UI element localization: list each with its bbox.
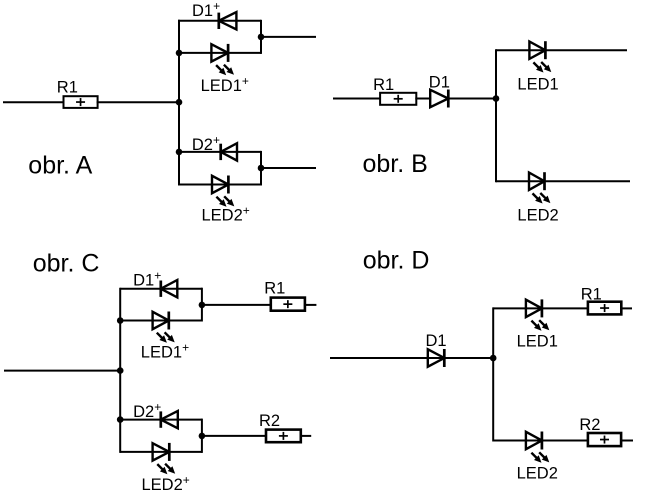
node: C main junction	[117, 367, 124, 374]
svg-text:D1: D1	[426, 332, 447, 350]
LED LED2 (obr. B)	[529, 173, 545, 190]
svg-text:obr. B: obr. B	[363, 150, 428, 178]
svg-text:LED2+: LED2+	[142, 473, 190, 494]
svg-text:obr. C: obr. C	[33, 249, 100, 277]
wire: C loop2 right side	[201, 419, 203, 453]
node: C output 2	[199, 433, 206, 440]
node: A output 2	[258, 165, 265, 172]
wire: C loop2 bottom (LED2)	[120, 451, 202, 453]
wire: B D1 to junction	[448, 98, 496, 100]
wire: A R1 to junction	[97, 101, 179, 103]
wire: C loop1 right side	[201, 288, 203, 322]
wire: B vertical	[495, 49, 497, 182]
wire: A loop2 top (D2 branch)	[179, 151, 261, 153]
wire: D R1 output	[620, 307, 632, 309]
LED LED2 (obr. D)	[526, 432, 542, 449]
wire: D top branch (LED1)	[493, 307, 589, 309]
wire: D bottom branch (LED2)	[493, 440, 589, 442]
svg-text:LED1+: LED1+	[201, 74, 249, 95]
diode D2 (obr. C)	[161, 411, 178, 428]
wire: A loop1 bottom (LED1 branch)	[179, 52, 261, 54]
node: A loop1 lower tap	[176, 50, 183, 57]
diode D1 (obr. C)	[161, 280, 178, 297]
node: D junction	[490, 355, 497, 362]
LED LED1 (obr. A)	[211, 44, 228, 61]
wire: D input	[330, 357, 493, 359]
wire: C loop2 top (D2 branch)	[120, 419, 202, 421]
wire: B R1 to D1	[415, 98, 431, 100]
wire: B input	[333, 98, 381, 100]
wire: C loop1 top (D1 branch)	[120, 288, 202, 290]
LED LED2 (obr. A)	[212, 176, 228, 193]
wire: A input	[3, 101, 65, 103]
wire: A vertical bus	[178, 20, 180, 186]
node: A main junction	[176, 99, 183, 106]
svg-text:R1: R1	[57, 79, 78, 97]
wire: C output 2 to R2	[202, 435, 267, 437]
node: A output 1	[258, 34, 265, 41]
wire: A output 1	[261, 36, 316, 38]
svg-text:R2: R2	[259, 412, 280, 430]
svg-text:R1: R1	[581, 285, 602, 303]
wire: B bottom branch (LED2)	[496, 180, 630, 182]
wire: D vertical	[492, 307, 494, 441]
diode D1 (obr. D)	[428, 349, 445, 366]
LED LED1 (obr. C)	[153, 312, 169, 329]
svg-text:LED1: LED1	[517, 332, 558, 350]
resistor R2 (obr. C)	[266, 430, 301, 443]
svg-text:R2: R2	[579, 416, 600, 434]
wire: A loop1 right side	[260, 20, 262, 54]
svg-text:R1: R1	[264, 279, 285, 297]
resistor R1 (obr. A)	[64, 96, 98, 108]
LED LED1 (obr. B)	[529, 42, 545, 59]
node: A loop2 upper tap	[176, 149, 183, 156]
svg-text:D1: D1	[429, 73, 450, 91]
node: C output 1	[199, 302, 206, 309]
LED LED1 (obr. D)	[526, 300, 542, 317]
resistor R2 (obr. D)	[588, 433, 621, 446]
wire: D R2 output	[620, 440, 633, 442]
resistor R1 (obr. B)	[380, 93, 416, 105]
wire: C R2 output	[300, 435, 311, 437]
wire: A loop2 bottom (LED2 branch)	[179, 184, 261, 186]
svg-text:obr. D: obr. D	[363, 247, 430, 275]
wire: A loop2 right side	[260, 151, 262, 186]
svg-text:LED2: LED2	[517, 207, 558, 225]
diode D1 (obr. A)	[219, 12, 237, 29]
wire: A output 2	[261, 167, 316, 169]
wire: C output 1 to R1	[202, 304, 272, 306]
wire: B top branch (LED1)	[496, 49, 627, 51]
wire: C loop1 bottom (LED1)	[120, 320, 202, 322]
resistor R1 (obr. D)	[588, 302, 621, 315]
diode D2 (obr. A)	[221, 143, 237, 160]
node: B junction	[493, 95, 500, 102]
wire: C R1 output	[304, 304, 317, 306]
svg-text:LED2: LED2	[517, 464, 558, 482]
svg-text:LED1+: LED1+	[141, 341, 189, 362]
wire: C input	[4, 370, 120, 372]
LED LED2 (obr. C)	[153, 443, 170, 460]
node: C loop1 lower tap	[117, 317, 124, 324]
resistor R1 (obr. C)	[271, 298, 305, 311]
wire: A loop1 top (D1 branch)	[178, 20, 261, 22]
svg-text:LED1: LED1	[517, 75, 558, 93]
diode D1 (obr. B)	[430, 90, 448, 107]
wire: C vertical bus	[119, 288, 121, 453]
svg-text:R1: R1	[373, 76, 394, 94]
svg-text:LED2+: LED2+	[202, 203, 250, 224]
svg-text:obr. A: obr. A	[28, 152, 92, 180]
node: C loop2 upper tap	[117, 416, 124, 423]
